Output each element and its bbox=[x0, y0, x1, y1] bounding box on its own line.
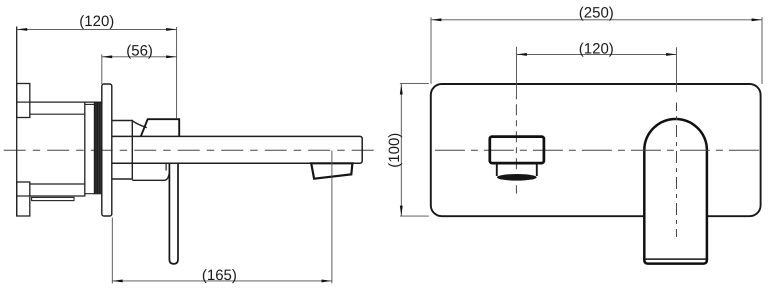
top lug divider line bbox=[17, 101, 30, 103]
extension line spout center bbox=[516, 47, 518, 96]
lever top knob (side) bbox=[141, 119, 179, 136]
bottom mounting strip bbox=[32, 197, 74, 200]
top mounting lug bbox=[17, 84, 30, 118]
lever neck back arc bbox=[133, 121, 147, 128]
body top edge extension to escutcheon bbox=[85, 101, 102, 103]
extension line (100) bottom bbox=[400, 215, 429, 217]
handle bottom inner line bbox=[645, 258, 706, 260]
svg-text:(100): (100) bbox=[386, 133, 403, 168]
dimension (56) bbox=[102, 42, 177, 59]
extension line (56) left bbox=[101, 54, 103, 84]
wall plate front bbox=[431, 84, 761, 216]
spout outlet ellipse bbox=[497, 174, 537, 181]
handle front (white fill hides plate edge behind) bbox=[644, 119, 707, 264]
dimension (100) vertical bbox=[386, 84, 403, 216]
bottom lug divider line bbox=[17, 195, 30, 197]
dimension (165) bbox=[112, 267, 332, 284]
spout lower block right edge bbox=[536, 163, 538, 176]
dimension (120) right view bbox=[517, 40, 677, 57]
extension line (250) right bbox=[761, 17, 763, 84]
under-spout base piece bbox=[132, 173, 169, 181]
wall mounting line bbox=[16, 27, 18, 217]
neck top line bbox=[85, 103, 94, 105]
svg-text:(120): (120) bbox=[579, 40, 614, 57]
cartridge housing block bbox=[112, 121, 133, 180]
extension line (100) top bbox=[400, 83, 429, 85]
svg-text:(165): (165) bbox=[202, 267, 237, 284]
spout lower block left edge bbox=[496, 163, 498, 176]
base front edge line bbox=[165, 164, 167, 171]
lever handle bar (side) bbox=[169, 163, 178, 264]
dimension (250) bbox=[431, 4, 762, 21]
neck bottom line bbox=[85, 193, 94, 195]
valve body inner line lower bbox=[30, 183, 85, 185]
extension line (165) right through outlet bbox=[331, 151, 333, 284]
svg-text:(56): (56) bbox=[126, 42, 153, 59]
extension line handle center bbox=[676, 47, 678, 92]
handle vertical centerline bbox=[676, 103, 678, 238]
valve body inner line upper bbox=[30, 113, 85, 115]
extension line (250) left bbox=[430, 17, 432, 84]
valve body box bbox=[30, 102, 85, 196]
extension line right of (120)/(56) bbox=[176, 27, 178, 119]
svg-text:(120): (120) bbox=[79, 13, 114, 30]
dimension (120) left view bbox=[17, 13, 177, 31]
spout vertical centerline bbox=[515, 96, 517, 194]
bottom mounting lug bbox=[17, 182, 30, 216]
spout flange front bbox=[490, 137, 544, 164]
centerline main axis left view bbox=[4, 149, 377, 151]
extension line (165) left bbox=[111, 218, 113, 284]
svg-text:(250): (250) bbox=[579, 4, 614, 21]
spout body (side) bbox=[112, 136, 362, 163]
escutcheon wall plate (side) bbox=[102, 84, 112, 216]
threaded hatch block bbox=[94, 102, 102, 194]
spout outlet piece (side) bbox=[311, 163, 352, 178]
horizontal centerline front view bbox=[435, 149, 762, 151]
